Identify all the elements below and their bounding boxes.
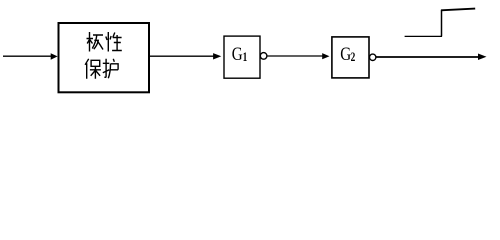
text 保 (85, 59, 101, 79)
text 性 (106, 32, 122, 52)
text 极 (87, 32, 104, 52)
node bubble of G2 (370, 54, 376, 60)
waveform step rising edge (441, 10, 443, 37)
text 护 (103, 59, 118, 79)
gate G2 box (332, 37, 369, 78)
node bubble of G1 (260, 53, 267, 60)
svg-text:2: 2 (351, 51, 356, 65)
node arrowhead into G1 (213, 53, 221, 59)
label G2 (340, 44, 355, 65)
label G1 (232, 44, 248, 65)
node input arrowhead (51, 53, 58, 59)
waveform step high segment (441, 9, 475, 11)
svg-text:1: 1 (243, 51, 248, 65)
svg-text:G: G (340, 44, 351, 65)
svg-text:G: G (232, 44, 243, 65)
wire box to G1 (150, 55, 215, 57)
wire input (3, 55, 52, 57)
node output arrowhead (478, 54, 487, 61)
wire output (376, 56, 479, 58)
gate G1 box (224, 36, 260, 78)
wire G1 to G2 (267, 55, 324, 57)
waveform step low segment (405, 35, 442, 37)
block polarity-protection box (59, 23, 150, 92)
node arrowhead into G2 (322, 53, 329, 59)
